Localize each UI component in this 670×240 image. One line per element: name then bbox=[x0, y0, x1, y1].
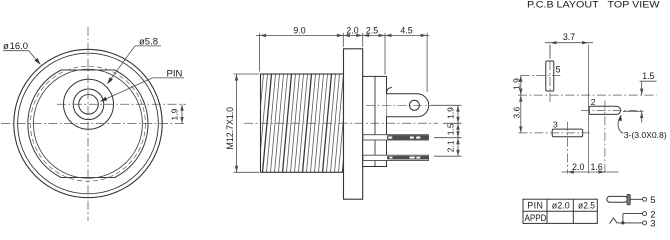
svg-text:1.9: 1.9 bbox=[170, 108, 180, 120]
svg-text:2: 2 bbox=[591, 97, 596, 107]
svg-text:APPD: APPD bbox=[525, 213, 547, 223]
svg-text:ø2.0: ø2.0 bbox=[552, 200, 570, 210]
svg-text:3: 3 bbox=[553, 119, 558, 129]
svg-text:2.0: 2.0 bbox=[346, 25, 358, 35]
svg-text:5: 5 bbox=[556, 65, 561, 75]
svg-text:9.0: 9.0 bbox=[293, 25, 305, 35]
svg-text:1.9: 1.9 bbox=[512, 78, 522, 90]
svg-text:1.6: 1.6 bbox=[590, 162, 602, 172]
svg-text:5: 5 bbox=[650, 195, 655, 206]
svg-text:P.C.B LAYOUT TOP VIEW: P.C.B LAYOUT TOP VIEW bbox=[527, 0, 660, 10]
svg-text:1.5: 1.5 bbox=[642, 71, 654, 81]
svg-text:3: 3 bbox=[650, 219, 655, 229]
svg-text:ø2.5: ø2.5 bbox=[578, 200, 595, 210]
svg-text:4.5: 4.5 bbox=[400, 25, 412, 35]
svg-text:2.0: 2.0 bbox=[572, 162, 584, 172]
svg-text:1.9: 1.9 bbox=[446, 107, 456, 119]
svg-text:M12.7X1.0: M12.7X1.0 bbox=[225, 107, 235, 150]
svg-text:1.5: 1.5 bbox=[446, 123, 456, 135]
svg-text:3-(3.0X0.8): 3-(3.0X0.8) bbox=[624, 130, 667, 140]
svg-text:2.1: 2.1 bbox=[446, 140, 456, 152]
svg-text:PIN: PIN bbox=[527, 200, 543, 210]
svg-text:2.5: 2.5 bbox=[366, 25, 378, 35]
svg-text:3.7: 3.7 bbox=[563, 32, 575, 42]
svg-text:3.6: 3.6 bbox=[512, 107, 522, 119]
